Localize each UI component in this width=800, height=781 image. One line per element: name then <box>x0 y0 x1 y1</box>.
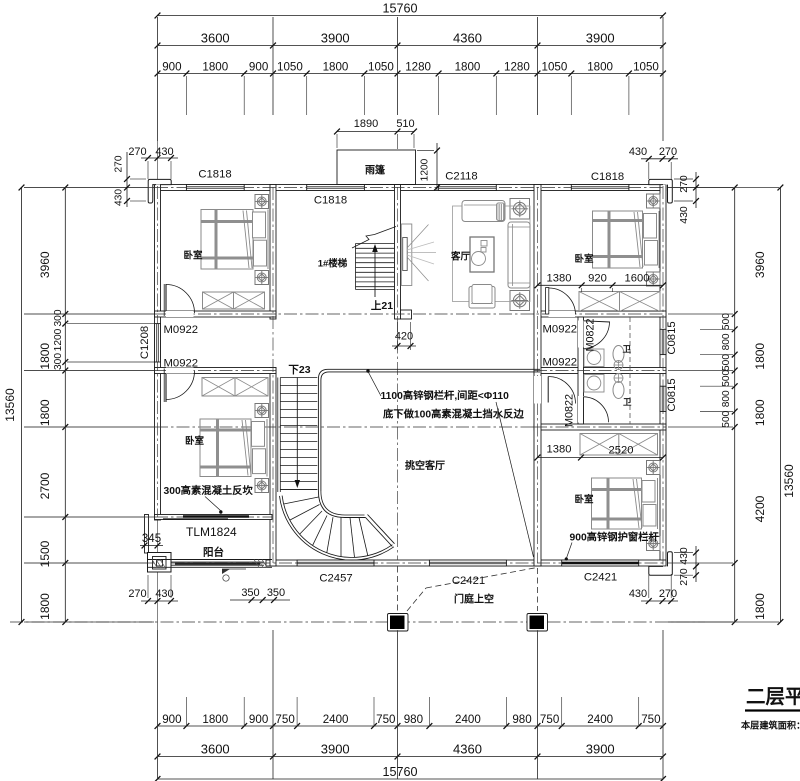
svg-text:阳台: 阳台 <box>203 546 224 559</box>
dim 420 stair wall return <box>392 322 416 350</box>
grid axis extension lines vertical <box>158 17 664 779</box>
porch column right <box>527 614 548 632</box>
nightstand symbol TR-a <box>647 194 661 208</box>
window C1208 left wall <box>155 324 161 362</box>
svg-text:13560: 13560 <box>3 388 17 422</box>
svg-text:270: 270 <box>114 155 125 172</box>
svg-text:2700: 2700 <box>38 472 52 499</box>
svg-text:TLM1824: TLM1824 <box>186 525 237 539</box>
svg-text:1380: 1380 <box>547 273 572 285</box>
porch column left <box>388 614 409 632</box>
svg-text:350: 350 <box>241 587 259 599</box>
svg-text:270: 270 <box>678 175 690 193</box>
svg-text:本层建筑面积：140.9㎡: 本层建筑面积：140.9㎡ <box>741 720 800 731</box>
corner pier top-left <box>148 179 171 203</box>
svg-text:1380: 1380 <box>547 444 572 456</box>
svg-text:卧室: 卧室 <box>574 494 594 506</box>
svg-text:C1818: C1818 <box>198 169 231 181</box>
svg-text:挑空客厅: 挑空客厅 <box>405 459 445 472</box>
svg-text:980: 980 <box>512 713 531 726</box>
svg-text:C1818: C1818 <box>314 195 347 207</box>
svg-text:2400: 2400 <box>587 713 613 726</box>
svg-text:430: 430 <box>114 189 125 206</box>
svg-text:1800: 1800 <box>202 713 228 726</box>
nightstand symbol TL-b <box>255 271 269 285</box>
window C0815 bath1 <box>660 329 666 354</box>
bathroom partition dashed <box>629 317 631 424</box>
svg-text:430: 430 <box>155 146 173 158</box>
canopy yupeng <box>337 150 416 185</box>
svg-text:1050: 1050 <box>633 61 659 74</box>
svg-text:300: 300 <box>53 309 64 326</box>
svg-text:M0822: M0822 <box>585 318 597 351</box>
svg-text:4200: 4200 <box>753 495 767 522</box>
svg-text:M0922: M0922 <box>543 324 578 336</box>
svg-text:900: 900 <box>249 713 268 726</box>
note railing 1100 <box>366 369 533 557</box>
svg-text:900: 900 <box>162 61 181 74</box>
svg-text:300高素混凝土反坎: 300高素混凝土反坎 <box>164 484 254 497</box>
nightstand symbol BL-a <box>255 404 269 418</box>
room labels <box>183 250 632 606</box>
svg-text:750: 750 <box>275 713 294 726</box>
svg-text:3600: 3600 <box>201 31 230 46</box>
wall R3 east segment <box>534 424 666 430</box>
svg-text:1800: 1800 <box>753 343 767 370</box>
svg-text:雨篷: 雨篷 <box>365 164 386 177</box>
svg-text:500: 500 <box>721 410 732 427</box>
wall C return 420 <box>401 310 412 319</box>
svg-text:4360: 4360 <box>453 742 482 757</box>
stair 1 straight flight <box>352 227 396 298</box>
svg-text:1200: 1200 <box>420 158 431 181</box>
svg-text:270: 270 <box>128 588 146 600</box>
dimension block bottom <box>155 630 666 781</box>
svg-text:1800: 1800 <box>455 61 481 74</box>
svg-text:1280: 1280 <box>504 61 530 74</box>
corner dim top-left 270/430 <box>114 146 179 207</box>
bath2 fixtures <box>584 374 624 399</box>
corner dim top-right <box>629 146 699 224</box>
window C0815 bath2 <box>660 386 666 411</box>
wardrobe bedroom bottom-right <box>580 434 658 456</box>
svg-text:M0822: M0822 <box>564 394 576 427</box>
window C2118 top living <box>439 185 497 191</box>
svg-text:C2118: C2118 <box>445 171 477 183</box>
balcony west wall <box>145 515 149 554</box>
svg-text:C2457: C2457 <box>319 573 352 585</box>
porch dashed outline <box>398 567 538 612</box>
svg-text:270: 270 <box>659 146 677 158</box>
svg-text:1800: 1800 <box>587 61 613 74</box>
svg-text:1890: 1890 <box>354 118 378 130</box>
wall R2 east segment <box>534 368 666 374</box>
svg-text:3900: 3900 <box>586 742 615 757</box>
dim 1380/2520 bedroom BR <box>535 444 666 461</box>
svg-text:750: 750 <box>376 713 395 726</box>
door M0822 bath1 <box>578 321 610 349</box>
svg-text:13560: 13560 <box>782 464 796 498</box>
exterior wall bottom R5 <box>266 560 666 566</box>
svg-text:920: 920 <box>588 273 607 285</box>
side table living-b <box>510 291 530 311</box>
window C1818 top-right <box>571 185 629 191</box>
svg-text:900: 900 <box>249 61 268 74</box>
door M0922 bedroom top-right <box>546 288 576 318</box>
svg-text:C0815: C0815 <box>666 321 678 354</box>
svg-text:3900: 3900 <box>586 31 615 46</box>
nightstand symbol TL-a <box>255 195 269 209</box>
svg-text:1100高锌钢栏杆,间距<Φ110: 1100高锌钢栏杆,间距<Φ110 <box>381 389 510 402</box>
svg-text:900: 900 <box>162 713 181 726</box>
svg-text:1800: 1800 <box>753 399 767 426</box>
window C1818 top-left <box>186 185 244 191</box>
svg-text:1800: 1800 <box>323 61 349 74</box>
svg-text:510: 510 <box>396 118 414 130</box>
svg-text:1#楼梯: 1#楼梯 <box>318 257 348 269</box>
corner dim bottom-left <box>128 575 178 604</box>
sofa right living room <box>508 222 530 288</box>
svg-text:500: 500 <box>721 369 732 386</box>
wardrobe bedroom bottom-left <box>202 378 268 397</box>
nightstand symbol BR-a <box>647 461 661 475</box>
svg-text:3960: 3960 <box>753 251 767 278</box>
svg-text:下23: 下23 <box>288 364 310 376</box>
note 300 concrete curb <box>164 484 254 514</box>
svg-text:C0815: C0815 <box>666 378 678 411</box>
wardrobe bedroom top-right <box>579 292 660 312</box>
living room rug outline <box>453 206 531 302</box>
svg-text:1050: 1050 <box>368 61 394 74</box>
svg-text:卧室: 卧室 <box>185 435 205 447</box>
svg-text:3900: 3900 <box>321 742 350 757</box>
window C2457 bottom <box>297 560 374 566</box>
svg-text:345: 345 <box>142 533 161 545</box>
side table living-a <box>510 199 530 220</box>
title block <box>741 686 800 731</box>
door labels <box>164 318 597 539</box>
svg-text:750: 750 <box>540 713 559 726</box>
svg-text:500: 500 <box>721 354 732 371</box>
svg-text:卫: 卫 <box>623 397 632 407</box>
svg-text:270: 270 <box>659 588 677 600</box>
svg-text:3600: 3600 <box>201 742 230 757</box>
nightstand symbol BR-b <box>647 537 661 551</box>
television living room <box>401 224 436 286</box>
svg-text:1050: 1050 <box>542 61 568 74</box>
door M0922 bedroom bottom-left <box>164 368 194 403</box>
door M0822 corridor <box>534 376 576 404</box>
window C2421 bottom porch <box>429 560 506 566</box>
wall R4 balcony north <box>155 515 273 520</box>
wall D full <box>534 185 541 567</box>
wall B lower (bedroom east) <box>270 368 276 567</box>
svg-text:15760: 15760 <box>382 765 417 779</box>
note 900 window railing <box>565 531 660 561</box>
wall R2 west segment <box>155 368 277 374</box>
nightstand symbol BL-b <box>255 479 269 493</box>
bed bedroom top-right <box>593 211 660 268</box>
svg-text:1800: 1800 <box>38 593 52 620</box>
svg-text:270: 270 <box>128 146 146 158</box>
wall B upper (stair room west) <box>270 185 276 320</box>
svg-text:二层平面图: 二层平面图 <box>746 686 800 708</box>
svg-text:1050: 1050 <box>277 61 303 74</box>
svg-text:C2421: C2421 <box>452 575 485 587</box>
armchair living room <box>469 285 495 309</box>
svg-text:2400: 2400 <box>455 713 481 726</box>
svg-text:430: 430 <box>629 146 647 158</box>
corner dim bottom-right <box>629 546 699 604</box>
window C2421 bottom bedroom with railing <box>562 560 639 566</box>
coffee table living room <box>470 237 494 272</box>
balcony level marker symbol <box>222 569 246 581</box>
wardrobe bedroom top-left <box>203 292 265 309</box>
curved stair flight and winders <box>278 369 540 560</box>
svg-text:1280: 1280 <box>405 61 431 74</box>
window C1818 top stair <box>307 185 365 191</box>
row extension lines left and R6 axis <box>10 188 705 623</box>
svg-text:M0922: M0922 <box>164 357 199 369</box>
dimension block top <box>155 2 666 142</box>
door M0922 bedroom top-left <box>164 284 194 317</box>
svg-text:3900: 3900 <box>321 31 350 46</box>
svg-text:430: 430 <box>678 206 690 224</box>
dim 345 balcony <box>140 533 163 548</box>
dimension block right <box>668 185 796 625</box>
svg-text:500: 500 <box>721 313 732 330</box>
exterior wall top R0 <box>155 185 667 191</box>
exterior wall left A <box>155 185 161 521</box>
svg-text:1600: 1600 <box>625 273 650 285</box>
nightstand symbol TR-b <box>647 272 661 286</box>
bed bedroom bottom-left <box>200 419 267 477</box>
svg-text:430: 430 <box>678 547 690 565</box>
exterior wall right E <box>660 185 666 567</box>
svg-text:3960: 3960 <box>38 251 52 278</box>
svg-text:M0922: M0922 <box>543 357 578 369</box>
svg-text:430: 430 <box>629 588 647 600</box>
svg-text:15760: 15760 <box>382 2 417 16</box>
svg-text:上21: 上21 <box>371 299 393 312</box>
svg-text:底下做100高素混凝土挡水反边: 底下做100高素混凝土挡水反边 <box>383 408 524 421</box>
svg-text:1800: 1800 <box>753 593 767 620</box>
svg-text:4360: 4360 <box>453 31 482 46</box>
svg-text:350: 350 <box>267 587 285 599</box>
svg-text:750: 750 <box>641 713 660 726</box>
dim 350/350 bottom <box>230 587 290 603</box>
svg-text:卧室: 卧室 <box>574 253 594 265</box>
wall centerlines dash-dot <box>150 186 666 566</box>
door M0822 bath2 <box>578 396 609 423</box>
dim 1380/920/1600 bedroom TR <box>535 273 666 293</box>
svg-text:1200: 1200 <box>53 328 64 351</box>
window labels <box>139 169 678 588</box>
corner pier bottom-right <box>649 552 673 575</box>
balcony front railing wall <box>148 560 272 568</box>
svg-text:C1818: C1818 <box>591 171 624 183</box>
svg-text:C2421: C2421 <box>584 572 617 584</box>
wall R1 west segment <box>155 311 277 317</box>
bath1 fixtures <box>584 346 624 370</box>
svg-text:270: 270 <box>678 568 690 586</box>
svg-text:客厅: 客厅 <box>450 251 471 263</box>
svg-text:1800: 1800 <box>38 399 52 426</box>
svg-text:M0922: M0922 <box>164 324 199 336</box>
svg-text:300: 300 <box>53 353 64 370</box>
canopy dim 1890/510 <box>334 118 417 149</box>
svg-text:980: 980 <box>404 713 423 726</box>
svg-text:1800: 1800 <box>202 61 228 74</box>
wall C (stair room east) <box>395 185 401 320</box>
wall R1 east segment <box>534 311 666 317</box>
bed bedroom top-left <box>201 210 268 270</box>
svg-text:800: 800 <box>721 333 732 350</box>
svg-text:900高锌钢护窗栏杆: 900高锌钢护窗栏杆 <box>570 531 660 544</box>
canopy dim 1200 <box>417 143 440 190</box>
balcony corner post bottom-left <box>148 553 172 573</box>
svg-text:卫: 卫 <box>623 344 632 354</box>
svg-text:2520: 2520 <box>609 445 634 457</box>
sofa top living room <box>462 201 505 222</box>
svg-text:1800: 1800 <box>38 343 52 370</box>
bed bedroom bottom-right <box>592 478 658 529</box>
svg-text:800: 800 <box>721 390 732 407</box>
wall bathrooms west <box>578 317 584 424</box>
sliding door TLM1824 <box>163 517 249 520</box>
svg-text:卧室: 卧室 <box>183 250 203 262</box>
corner pier top-right <box>649 179 673 203</box>
svg-text:C1208: C1208 <box>139 326 151 359</box>
dimension block left <box>3 185 154 625</box>
svg-text:2400: 2400 <box>323 713 349 726</box>
svg-text:门庭上空: 门庭上空 <box>454 593 494 606</box>
